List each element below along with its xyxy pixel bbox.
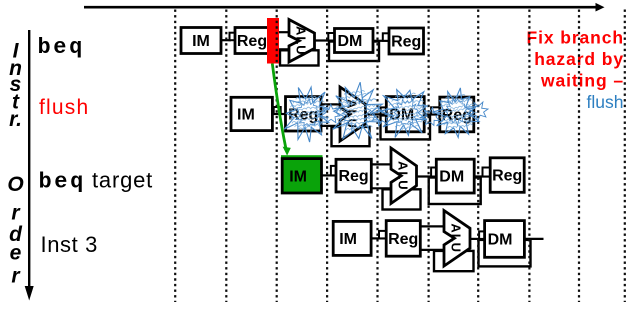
- svg-text:ALU: ALU: [294, 26, 309, 56]
- time axis arrow (top): [84, 6, 596, 9]
- svg-text:IM: IM: [192, 33, 210, 50]
- row1 wire IM to Reg: [221, 39, 231, 41]
- flush spark bridge DM-Reg (row2): [420, 108, 440, 126]
- clock cycle dotted separators: [174, 10, 176, 303]
- row1 pipeline latch IF/ID: [230, 33, 237, 41]
- flush spark over Reg (row2): [284, 87, 328, 142]
- row3 pipeline latch EX/MEM: [431, 168, 437, 177]
- row2 Reg writeback box: [440, 97, 474, 132]
- svg-text:target: target: [92, 168, 153, 193]
- row2 wire ALU to DM: [366, 113, 388, 115]
- row3 ALU: [391, 148, 417, 204]
- row3 DM box: [436, 159, 474, 193]
- row4 pipeline latch IF/ID: [379, 231, 387, 239]
- row2 DM box: [386, 97, 424, 132]
- row1 wire ALU to DM: [315, 39, 336, 41]
- row3 DM shadow box: [429, 178, 481, 205]
- row2 pipeline latch EX/MEM: [381, 107, 387, 114]
- svg-text:r: r: [11, 265, 21, 288]
- svg-text:beq: beq: [39, 170, 86, 195]
- row3 pipeline latch IF/ID: [331, 166, 337, 176]
- row1 wires Reg to ALU: [279, 31, 290, 33]
- row2 ALU shadow box: [332, 127, 370, 146]
- row1 wire DM to Reg: [373, 40, 389, 42]
- row4 IM box: [333, 221, 371, 255]
- row3 IM box (green): [282, 159, 321, 193]
- row4 Reg box: [386, 221, 420, 257]
- flush spark bridge ALU-DM (row2): [373, 108, 391, 126]
- svg-text:flush: flush: [587, 92, 624, 112]
- svg-text:Inst 3: Inst 3: [41, 232, 98, 257]
- row3 Reg writeback box: [490, 158, 524, 193]
- time axis arrowhead: [596, 3, 605, 12]
- row4 DM shadow box: [479, 240, 531, 267]
- svg-text:O: O: [7, 173, 23, 196]
- row2 wire IM to Reg: [272, 113, 286, 115]
- flush spark over DM (row2): [379, 90, 427, 138]
- green branch-target arrow: [272, 64, 286, 150]
- row2 wires Reg to ALU: [321, 103, 341, 105]
- instruction order axis line: [28, 30, 30, 289]
- flush spark over Reg WB (row2): [433, 88, 479, 137]
- svg-text:IM: IM: [237, 106, 255, 123]
- flush spark bridge Reg-ALU (row2): [321, 104, 341, 122]
- row2 pipeline latch MEM/WB: [431, 107, 440, 114]
- row4 wire ALU to DM: [470, 238, 485, 240]
- flush spark over ALU (row2): [333, 82, 382, 139]
- row1 DM box: [335, 29, 374, 53]
- row2 ALU: [340, 87, 366, 141]
- svg-text:IM: IM: [289, 168, 307, 185]
- row1 DM shadow box: [329, 42, 379, 62]
- row1 pipeline latch EX/MEM: [328, 33, 335, 41]
- row4 wire IM to Reg: [371, 237, 387, 239]
- svg-text:r: r: [11, 201, 21, 224]
- svg-text:ALU: ALU: [449, 223, 464, 253]
- row3 ALU shadow box: [383, 189, 421, 209]
- row1 Reg box: [235, 28, 269, 54]
- row4 ALU: [444, 211, 470, 267]
- row3 pipeline latch MEM/WB: [483, 168, 491, 177]
- instruction order axis arrowhead: [25, 286, 34, 301]
- svg-text:DM: DM: [338, 33, 363, 50]
- svg-text:Reg: Reg: [338, 168, 368, 185]
- row2 Reg box: [286, 97, 322, 131]
- row1 ALU: [289, 20, 315, 63]
- svg-text:Reg: Reg: [388, 231, 418, 248]
- row1 ALU shadow box: [280, 50, 319, 65]
- flush spark right tip (row2): [467, 102, 488, 121]
- svg-text:ALU: ALU: [396, 161, 411, 191]
- row4 wire DM out: [524, 238, 543, 240]
- row4 pipeline latch EX/MEM: [479, 231, 485, 239]
- row3 wire DM to Reg: [474, 175, 490, 177]
- svg-text:Fix branch: Fix branch: [527, 27, 625, 47]
- svg-text:DM: DM: [439, 169, 464, 186]
- row2 DM shadow box: [381, 115, 431, 139]
- svg-text:IM: IM: [339, 231, 357, 248]
- row2 IM box: [231, 97, 272, 130]
- svg-text:Reg: Reg: [237, 33, 267, 50]
- row1 pipeline latch MEM/WB: [383, 33, 390, 41]
- svg-text:flush: flush: [39, 96, 89, 119]
- row3 green fetched IM highlight: [281, 155, 323, 193]
- row4 ALU shadow box: [434, 251, 474, 271]
- row2 pipeline latch IF/ID: [274, 107, 281, 114]
- row1 IM box: [181, 28, 221, 54]
- row1 Reg writeback box: [389, 28, 424, 54]
- row3 wires Reg to ALU: [371, 163, 392, 165]
- svg-text:waiting –: waiting –: [540, 70, 624, 90]
- row2 wire DM to Reg: [424, 113, 440, 115]
- row3 Reg box: [336, 159, 371, 192]
- row3 wire ALU to DM: [417, 175, 438, 177]
- svg-text:Reg: Reg: [391, 34, 421, 51]
- row4 DM box: [485, 221, 525, 258]
- svg-text:r.: r.: [9, 108, 22, 131]
- svg-text:Reg: Reg: [492, 168, 522, 185]
- row1 branch-compare highlight (red pipeline register): [267, 18, 279, 64]
- row3 wire IM to Reg: [322, 174, 338, 176]
- row4 wires Reg to ALU: [420, 225, 445, 227]
- svg-text:DM: DM: [488, 231, 513, 248]
- svg-text:beq: beq: [38, 35, 85, 60]
- svg-text:e: e: [10, 242, 22, 265]
